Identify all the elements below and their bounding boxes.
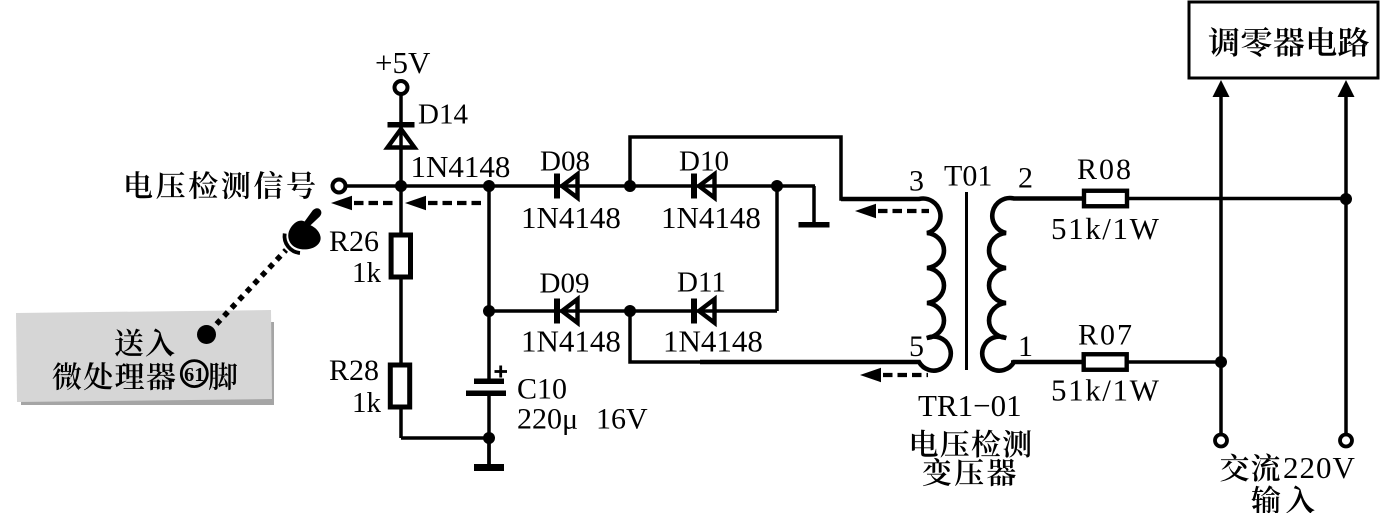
wire AC line left vertical xyxy=(1219,95,1223,434)
diode D14 xyxy=(388,122,415,148)
dashed arrow signal left outer xyxy=(331,196,397,210)
node dot A1 xyxy=(395,180,407,192)
terminal voltage detect signal output xyxy=(333,180,346,193)
svg-text:R07: R07 xyxy=(1078,319,1134,352)
label transformer name line 2 xyxy=(923,458,1016,486)
svg-text:1N4148: 1N4148 xyxy=(663,324,763,359)
wire secondary pin 1 to R07 to AC line xyxy=(1011,360,1221,364)
wire R26 R28 chain xyxy=(399,186,403,438)
wire main horizontal node A xyxy=(339,184,815,188)
wire bottom bridge row xyxy=(489,309,777,313)
terminal +5V xyxy=(395,81,408,94)
svg-text:D10: D10 xyxy=(679,146,729,178)
label send-to line 2a xyxy=(53,362,176,390)
svg-text:1k: 1k xyxy=(352,387,382,419)
svg-text:16V: 16V xyxy=(596,403,648,436)
label voltage detection signal xyxy=(126,171,315,199)
dashed arrow at pin 5 xyxy=(860,368,928,382)
svg-text:R08: R08 xyxy=(1077,153,1133,186)
svg-text:R28: R28 xyxy=(329,354,379,387)
transformer T01 core xyxy=(965,192,968,370)
node dot A3 xyxy=(624,180,636,192)
label zero adjuster circuit xyxy=(1209,27,1369,57)
wire bottom R28 to C10 node xyxy=(401,436,489,440)
svg-text:61: 61 xyxy=(184,364,205,386)
svg-text:51k/1W: 51k/1W xyxy=(1051,373,1160,408)
wire left vertical node A to C10 xyxy=(487,186,491,381)
wire bridge to transformer pin 5 xyxy=(630,311,920,362)
dashed arrow signal left inner xyxy=(405,196,486,210)
node dot B2 xyxy=(624,305,636,317)
capacitor C10 plus sign xyxy=(495,366,508,378)
capacitor C10 top plate xyxy=(474,379,504,385)
resistor R26 xyxy=(391,235,410,277)
svg-text:D11: D11 xyxy=(677,267,726,299)
svg-text:TR1−01: TR1−01 xyxy=(918,388,1022,423)
node dot on AC right line xyxy=(1340,193,1352,205)
wire bridge right vertical xyxy=(775,186,779,311)
hand pointer xyxy=(285,208,322,253)
label AC input xyxy=(1251,485,1314,513)
resistor R07 xyxy=(1084,354,1127,370)
label AC 220V xyxy=(1221,453,1280,481)
svg-text:1N4148: 1N4148 xyxy=(661,200,761,235)
svg-text:220μ: 220μ xyxy=(517,403,578,436)
diode D11 xyxy=(691,299,715,324)
wire +5V to D14 to node A xyxy=(399,95,403,186)
svg-text:1: 1 xyxy=(1018,330,1033,363)
diode D10 xyxy=(691,174,715,199)
zero adjuster circuit box xyxy=(1189,2,1378,78)
label send-to line 2b xyxy=(209,362,237,390)
svg-text:1k: 1k xyxy=(352,257,382,289)
wire secondary pin 2 to R08 to AC line xyxy=(1011,197,1346,201)
svg-text:1N4148: 1N4148 xyxy=(521,200,621,235)
svg-text:D08: D08 xyxy=(540,146,590,178)
resistor R08 xyxy=(1084,191,1127,207)
node dot B1 xyxy=(483,305,495,317)
transformer T01 primary winding xyxy=(700,199,951,371)
svg-text:2: 2 xyxy=(1018,162,1033,195)
ground at bridge xyxy=(799,186,830,228)
gray note box xyxy=(16,310,272,402)
node dot A4 xyxy=(771,180,783,192)
svg-text:1N4148: 1N4148 xyxy=(411,149,511,184)
label send-to line 1 xyxy=(115,329,174,357)
node dot on AC left line xyxy=(1215,356,1227,368)
wire top loop bridge to transformer pin 3 xyxy=(630,137,918,199)
arrow up into box right xyxy=(1338,80,1355,97)
node dot A2 xyxy=(483,180,495,192)
diode D09 xyxy=(554,299,578,324)
resistor R28 xyxy=(390,365,409,407)
ground below C10 xyxy=(474,438,504,471)
svg-text:D14: D14 xyxy=(418,99,468,131)
terminal AC right xyxy=(1340,435,1352,447)
dashed arrow at pin 3 xyxy=(855,204,929,218)
gray note shadow xyxy=(21,322,274,405)
svg-text:5: 5 xyxy=(909,330,924,363)
svg-text:D09: D09 xyxy=(540,268,590,300)
svg-text:1N4148: 1N4148 xyxy=(521,324,621,359)
svg-text:T01: T01 xyxy=(944,160,992,193)
svg-text:51k/1W: 51k/1W xyxy=(1051,211,1160,246)
transformer T01 secondary winding xyxy=(982,198,1084,371)
capacitor C10 bottom plate xyxy=(466,391,506,397)
svg-text:R26: R26 xyxy=(329,225,379,258)
svg-text:C10: C10 xyxy=(517,373,567,406)
arrow up into box left xyxy=(1213,80,1230,97)
wire C10 to ground node xyxy=(487,393,491,464)
wire AC line right vertical xyxy=(1344,95,1348,434)
label transformer name line 1 xyxy=(912,430,1031,458)
svg-text:220V: 220V xyxy=(1283,450,1356,485)
dotted leader line xyxy=(197,250,286,344)
svg-text:3: 3 xyxy=(909,165,924,198)
circled 61 xyxy=(181,361,207,387)
node dot ground xyxy=(483,432,495,444)
svg-text:+5V: +5V xyxy=(375,45,431,80)
terminal AC left xyxy=(1215,435,1227,447)
diode D08 xyxy=(554,174,578,199)
